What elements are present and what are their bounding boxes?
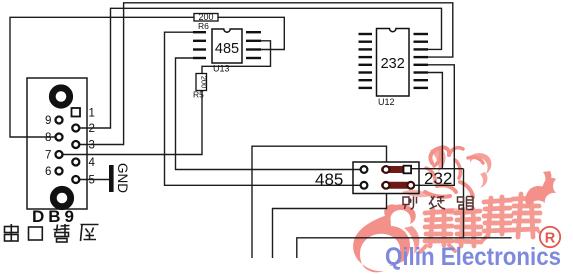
watermark wisp right of jumper bbox=[470, 153, 491, 174]
wire 232 row5 to jumper col3 row2 bbox=[415, 65, 454, 186]
char chuan bbox=[5, 224, 19, 242]
wire net pin8-R6-485pin: left loop bbox=[10, 17, 284, 137]
serial socket label (pseudo CJK 串口插座) bbox=[5, 224, 99, 242]
jumper cap label (pseudo CJK 跳线帽, dark) bbox=[403, 196, 473, 210]
U13 pin stub left 4 bbox=[193, 57, 206, 59]
resistor R6 body bbox=[194, 14, 218, 22]
square pin col3 row1 bbox=[404, 166, 412, 174]
svg-text:3: 3 bbox=[89, 140, 95, 152]
svg-text:U12: U12 bbox=[378, 97, 395, 107]
pin number labels bbox=[45, 108, 96, 187]
DB9 body box bbox=[27, 78, 87, 209]
wire 485 left row1 to jumper col1 row2 bbox=[165, 32, 361, 185]
U13 pin stub left 3 bbox=[193, 48, 206, 50]
U13 pin stub right 4 bbox=[246, 57, 261, 59]
svg-text:232: 232 bbox=[424, 169, 452, 188]
registered trademark symbol bbox=[540, 227, 560, 247]
watermark char qi (麒) bbox=[420, 209, 481, 252]
DB9 pin 2 bbox=[72, 125, 79, 132]
svg-text:1: 1 bbox=[89, 108, 95, 120]
wire square pin rail extension right bbox=[442, 168, 463, 170]
svg-text:200: 200 bbox=[199, 76, 208, 89]
U12 pin stub right 8 bbox=[414, 87, 429, 89]
char zuo bbox=[81, 225, 99, 242]
wire 232 row6 to jumper square pin bbox=[411, 73, 442, 169]
hole col2 row2 bbox=[383, 182, 390, 189]
U12 pin stub right 4 bbox=[414, 56, 429, 58]
svg-text:4: 4 bbox=[89, 157, 96, 169]
svg-text:9: 9 bbox=[45, 115, 51, 127]
watermark flourish top right of lin bbox=[525, 178, 556, 207]
DB9 pin 4 bbox=[72, 159, 79, 166]
svg-text:232: 232 bbox=[381, 56, 405, 72]
U12 pin stub right 2 bbox=[414, 41, 429, 43]
svg-text:U13: U13 bbox=[213, 64, 230, 74]
transceiver chip U12 body with notch bbox=[377, 29, 410, 97]
U12 pin stub left 3 bbox=[359, 48, 373, 50]
watermark red wisp near jumper right bbox=[430, 148, 445, 172]
char tiao bbox=[403, 197, 417, 210]
DB9 pin 8 bbox=[56, 134, 63, 141]
wire jumper col2 row2 down-left to bottom dangle bbox=[273, 194, 387, 259]
wire net DB9 pin7 to R5 bottom bbox=[62, 91, 202, 155]
svg-text:Qilin Electronics: Qilin Electronics bbox=[385, 243, 561, 271]
svg-text:7: 7 bbox=[45, 150, 51, 162]
U12 pin stub right 6 bbox=[414, 71, 429, 73]
wire net DB9 pin3 to 232 row4 bbox=[79, 3, 453, 145]
wire square pin tee down to bottom rail bbox=[463, 169, 465, 238]
op-amp/transceiver chip U13 body with notch bbox=[212, 29, 242, 63]
U12 pin stub right 7 bbox=[414, 79, 429, 81]
U12 pin stub left 2 bbox=[359, 41, 373, 43]
ground bar bbox=[109, 165, 114, 192]
U12 pin stub left 5 bbox=[359, 64, 373, 66]
U13 pin stub right 2 bbox=[246, 40, 261, 42]
svg-text:R5: R5 bbox=[193, 90, 204, 100]
DB9 pin 6 bbox=[56, 168, 63, 175]
watermark wisp behind jumper-cap label bbox=[402, 190, 430, 197]
DB9 pin 3 bbox=[72, 141, 79, 148]
wire DB9 pin5 to GND bbox=[80, 179, 109, 181]
svg-text:6: 6 bbox=[45, 166, 51, 178]
char kou bbox=[29, 227, 43, 240]
jumper box bbox=[353, 162, 419, 194]
watermark swirl dragon left of blue text bbox=[384, 204, 416, 224]
DB9 pin 1 square bbox=[72, 108, 81, 117]
watermark dragon flame around jumper 232 label bbox=[425, 147, 483, 197]
svg-text:DB9: DB9 bbox=[32, 207, 78, 226]
U12 pin stub left 8 bbox=[359, 87, 373, 89]
U12 pin stub right 3 bbox=[414, 48, 429, 50]
U13 pin stub right 3 bbox=[246, 48, 261, 50]
jumper cap row2 col2-col3 bbox=[381, 182, 415, 189]
DB9 bottom mounting hole bbox=[53, 189, 70, 206]
char xian bbox=[429, 196, 445, 209]
DB9 top mounting hole bbox=[52, 88, 69, 105]
DB9 pin 7 bbox=[56, 151, 63, 158]
watermark char lin (麟) bbox=[482, 194, 540, 241]
U13 pin stub right 1 bbox=[246, 31, 261, 33]
svg-text:485: 485 bbox=[215, 41, 239, 57]
svg-text:8: 8 bbox=[45, 132, 51, 144]
wire jumper col2 row1 up-left to bottom dangle bbox=[252, 146, 387, 258]
U12 pin stub right 1 bbox=[414, 33, 429, 35]
svg-text:R6: R6 bbox=[198, 21, 209, 31]
hole col2 row1 bbox=[383, 166, 390, 173]
U13 pin stub left 2 bbox=[193, 40, 206, 42]
U12 pin stub left 1 bbox=[359, 33, 373, 35]
U12 pin stub left 7 bbox=[359, 79, 373, 81]
hole col1 row2 bbox=[361, 182, 368, 189]
wire 485 left row4 to jumper col1 row1 bbox=[176, 58, 361, 170]
char mao bbox=[458, 197, 474, 210]
resistor R5 body bbox=[196, 74, 207, 91]
svg-text:485: 485 bbox=[315, 170, 343, 189]
char cha bbox=[54, 224, 70, 242]
jumper cap row1 col2-col3 bbox=[381, 166, 408, 173]
hole col3 row2 bbox=[407, 182, 414, 189]
wire R5 top to 485 right row2 bbox=[202, 41, 271, 74]
U12 pin stub right 5 bbox=[414, 64, 429, 66]
svg-text:5: 5 bbox=[89, 175, 95, 187]
hole col1 row1 bbox=[361, 166, 368, 173]
svg-text:GND: GND bbox=[115, 163, 130, 193]
svg-text:2: 2 bbox=[89, 123, 95, 135]
wire bottom rail bbox=[297, 238, 512, 258]
wire net DB9 pin2 to 232 row2 bbox=[79, 8, 442, 128]
DB9 pin 5 bbox=[72, 176, 79, 183]
U12 pin stub left 4 bbox=[359, 56, 373, 58]
U12 pin stub left 6 bbox=[359, 71, 373, 73]
U13 pin stub left 1 bbox=[193, 31, 206, 33]
DB9 pin 9 bbox=[56, 117, 63, 124]
